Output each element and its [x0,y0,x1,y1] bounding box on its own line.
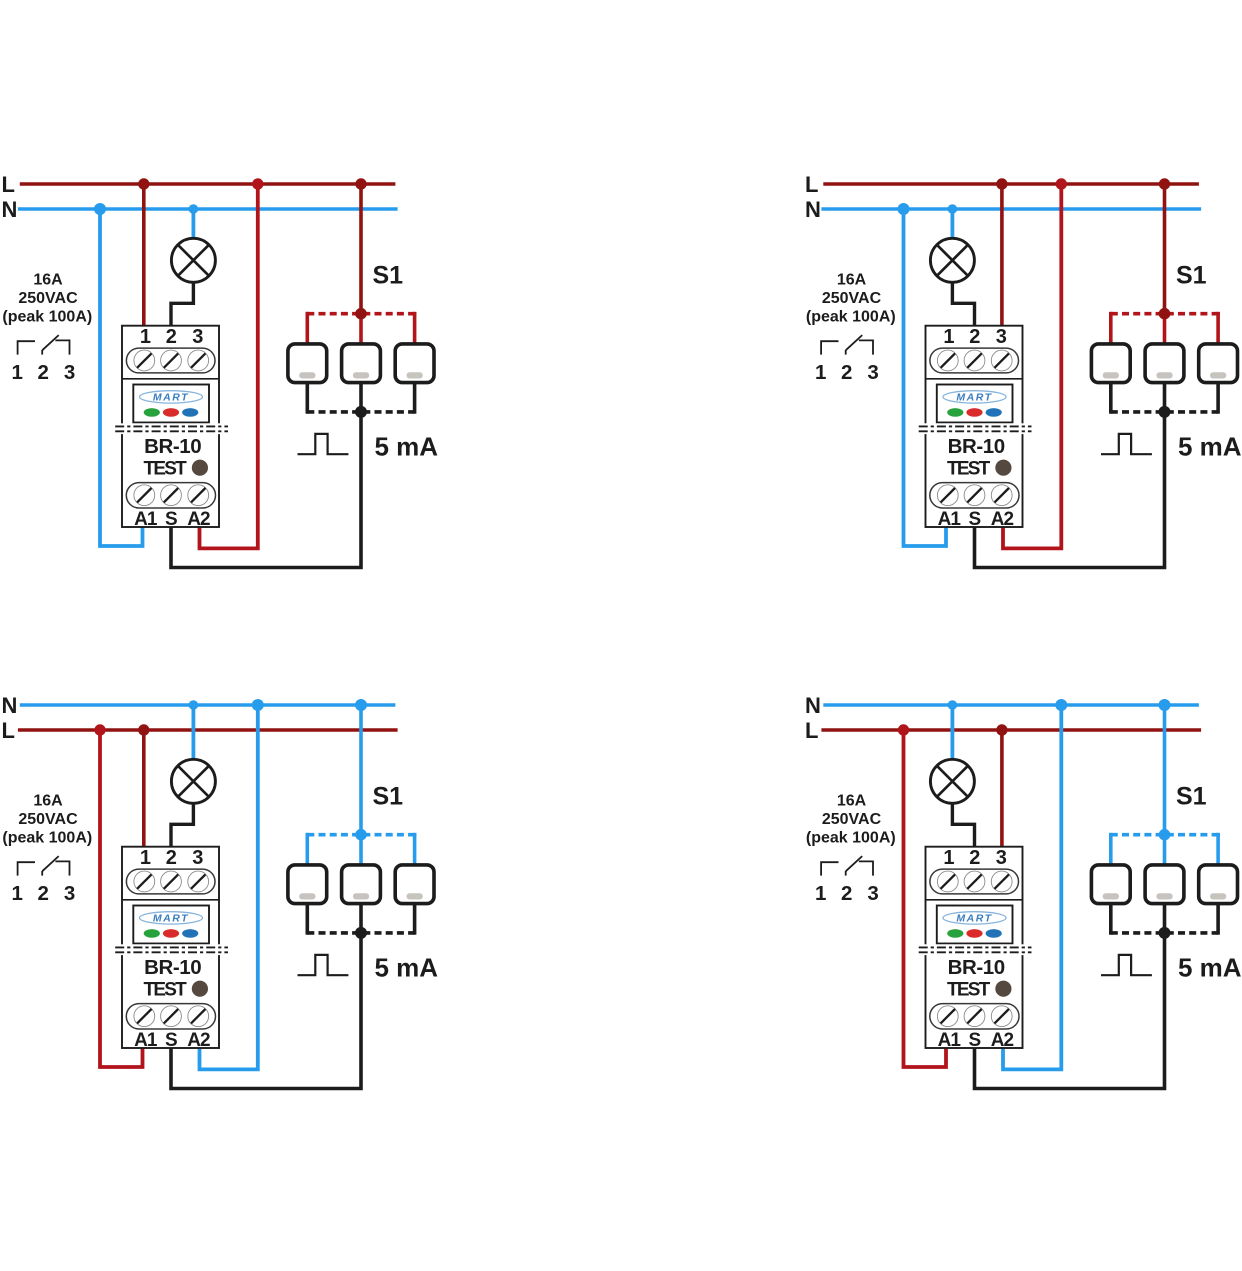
svg-text:2: 2 [969,326,980,348]
svg-text:3: 3 [996,326,1007,348]
svg-text:(peak 100A): (peak 100A) [806,830,896,847]
svg-text:BR-10: BR-10 [144,435,201,458]
svg-text:MART: MART [956,392,992,404]
svg-text:A1: A1 [134,1030,158,1051]
svg-text:A2: A2 [187,1030,210,1051]
svg-text:MART: MART [153,392,189,404]
svg-text:16A: 16A [837,793,867,810]
svg-text:S: S [165,509,178,530]
svg-text:TEST: TEST [144,459,188,480]
svg-text:5 mA: 5 mA [375,952,439,982]
svg-text:BR-10: BR-10 [948,956,1005,979]
svg-text:L: L [805,718,818,743]
svg-text:N: N [805,693,821,718]
svg-text:A2: A2 [991,1030,1014,1051]
svg-text:BR-10: BR-10 [144,956,201,979]
svg-text:S: S [165,1030,178,1051]
svg-text:A1: A1 [134,509,158,530]
svg-text:N: N [2,693,18,718]
svg-text:L: L [2,172,15,197]
svg-text:3: 3 [192,847,203,869]
svg-text:2: 2 [841,361,852,384]
svg-text:1: 1 [815,361,826,384]
svg-text:3: 3 [867,361,878,384]
svg-text:3: 3 [192,326,203,348]
svg-text:2: 2 [166,326,177,348]
svg-text:(peak 100A): (peak 100A) [2,830,92,847]
svg-text:2: 2 [37,882,48,905]
svg-text:5 mA: 5 mA [1178,431,1242,461]
svg-text:1: 1 [11,361,22,384]
svg-text:16A: 16A [33,793,63,810]
svg-text:S1: S1 [1176,782,1207,810]
svg-text:2: 2 [969,847,980,869]
svg-text:L: L [805,172,818,197]
svg-text:N: N [805,197,821,222]
svg-text:1: 1 [140,326,151,348]
svg-text:MART: MART [153,913,189,925]
svg-text:A2: A2 [991,509,1014,530]
svg-text:S1: S1 [373,261,404,289]
svg-text:250VAC: 250VAC [822,290,882,307]
svg-text:S1: S1 [1176,261,1207,289]
svg-text:1: 1 [11,882,22,905]
svg-text:250VAC: 250VAC [822,811,882,828]
svg-text:A2: A2 [187,509,210,530]
svg-text:1: 1 [943,326,954,348]
svg-text:1: 1 [943,847,954,869]
svg-text:S: S [968,509,981,530]
svg-text:(peak 100A): (peak 100A) [806,309,896,326]
svg-text:L: L [2,718,15,743]
svg-text:BR-10: BR-10 [948,435,1005,458]
svg-text:16A: 16A [33,272,63,289]
svg-text:1: 1 [140,847,151,869]
svg-text:TEST: TEST [947,459,991,480]
svg-text:(peak 100A): (peak 100A) [2,309,92,326]
svg-text:A1: A1 [938,509,962,530]
svg-text:MART: MART [956,913,992,925]
svg-text:16A: 16A [837,272,867,289]
svg-text:3: 3 [64,361,75,384]
svg-text:TEST: TEST [947,980,991,1001]
svg-text:A1: A1 [938,1030,962,1051]
svg-text:2: 2 [841,882,852,905]
svg-text:N: N [2,197,18,222]
svg-text:S: S [968,1030,981,1051]
svg-text:250VAC: 250VAC [18,290,78,307]
svg-text:250VAC: 250VAC [18,811,78,828]
svg-text:TEST: TEST [144,980,188,1001]
svg-text:2: 2 [37,361,48,384]
svg-text:S1: S1 [373,782,404,810]
svg-text:3: 3 [996,847,1007,869]
svg-text:2: 2 [166,847,177,869]
svg-text:5 mA: 5 mA [1178,952,1242,982]
svg-text:3: 3 [867,882,878,905]
svg-text:1: 1 [815,882,826,905]
svg-text:5 mA: 5 mA [375,431,439,461]
svg-text:3: 3 [64,882,75,905]
